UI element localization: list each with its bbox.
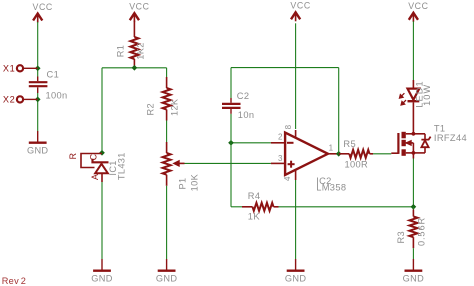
svg-text:100R: 100R <box>345 159 369 169</box>
svg-text:R5: R5 <box>343 139 356 149</box>
svg-text:0.56R: 0.56R <box>416 217 426 246</box>
svg-text:C2: C2 <box>237 91 250 101</box>
svg-text:GND: GND <box>403 273 424 283</box>
svg-text:R1: R1 <box>116 45 126 57</box>
svg-text:10n: 10n <box>238 110 255 120</box>
svg-text:1K: 1K <box>248 212 261 222</box>
svg-text:VCC: VCC <box>33 2 53 12</box>
svg-text:R3: R3 <box>396 231 406 243</box>
svg-text:GND: GND <box>285 273 306 283</box>
svg-text:2: 2 <box>278 133 283 142</box>
svg-text:4: 4 <box>283 176 292 181</box>
svg-text:1: 1 <box>329 144 334 153</box>
svg-text:R4: R4 <box>248 191 261 201</box>
svg-text:P1: P1 <box>178 178 188 190</box>
svg-text:X2: X2 <box>3 95 16 105</box>
svg-text:C1: C1 <box>47 70 60 80</box>
svg-text:10K: 10K <box>189 173 199 191</box>
svg-text:100n: 100n <box>46 91 68 101</box>
svg-text:VCC: VCC <box>290 1 310 11</box>
svg-text:X1: X1 <box>3 64 16 74</box>
svg-text:GND: GND <box>156 273 177 283</box>
svg-text:Rev: Rev <box>2 276 19 286</box>
svg-text:GND: GND <box>91 273 112 283</box>
svg-text:VCC: VCC <box>129 2 149 12</box>
svg-text:LM358: LM358 <box>316 183 346 193</box>
svg-text:10W: 10W <box>422 84 432 106</box>
svg-text:A: A <box>90 174 100 180</box>
svg-text:3: 3 <box>278 154 283 163</box>
svg-text:2: 2 <box>21 276 26 286</box>
svg-text:R2: R2 <box>145 103 155 115</box>
svg-text:8: 8 <box>284 124 293 129</box>
svg-text:1K2: 1K2 <box>136 42 146 59</box>
svg-text:IRFZ44: IRFZ44 <box>434 133 467 143</box>
svg-text:C: C <box>89 153 99 160</box>
svg-text:12K: 12K <box>170 98 180 116</box>
svg-text:VCC: VCC <box>408 1 428 11</box>
svg-text:TL431: TL431 <box>117 152 127 180</box>
svg-text:R: R <box>68 153 78 160</box>
svg-text:GND: GND <box>27 145 48 155</box>
